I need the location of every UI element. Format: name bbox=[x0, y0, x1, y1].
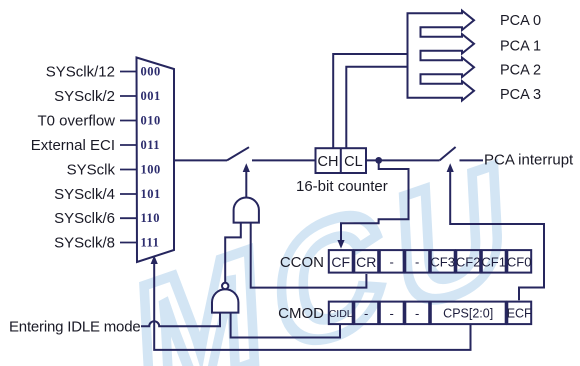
register CH/CL (16-bit counter) bbox=[316, 148, 367, 173]
switch S1 (counter run/stop) bbox=[227, 147, 249, 160]
wire mux output to switch S1 bbox=[174, 159, 227, 161]
svg-text:101: 101 bbox=[141, 187, 161, 201]
wire ECF to interrupt enable switch bbox=[450, 171, 544, 300]
svg-text:CF0: CF0 bbox=[507, 254, 532, 269]
svg-text:CF2: CF2 bbox=[456, 254, 481, 269]
svg-text:PCA 3: PCA 3 bbox=[500, 87, 541, 103]
svg-text:Entering IDLE mode: Entering IDLE mode bbox=[9, 319, 140, 336]
wire switch S2 to PCA interrupt bbox=[460, 159, 484, 161]
svg-text:100: 100 bbox=[141, 163, 161, 177]
svg-text:-: - bbox=[390, 306, 394, 321]
svg-text:PCA 0: PCA 0 bbox=[500, 13, 541, 29]
PCA module output comb arrows (PCA0-PCA3) bbox=[408, 11, 475, 101]
svg-text:16-bit counter: 16-bit counter bbox=[296, 178, 388, 195]
wire input stub SYSclk/8 bbox=[120, 242, 137, 244]
svg-text:011: 011 bbox=[141, 138, 161, 152]
register CMOD cells bbox=[329, 302, 353, 325]
svg-text:ECF: ECF bbox=[507, 307, 532, 321]
arrowhead mux select bbox=[151, 255, 158, 264]
wire CH to PCA module bus (left feed) bbox=[333, 54, 407, 148]
arrowhead into CF bit bbox=[337, 240, 344, 249]
arrowhead to switch S2 bbox=[447, 163, 454, 172]
svg-text:CMOD: CMOD bbox=[278, 305, 324, 322]
switch S2 (interrupt enable) bbox=[440, 147, 456, 160]
mux select codes bbox=[141, 65, 161, 250]
svg-text:CL: CL bbox=[344, 154, 363, 170]
mux (clock source multiplexer) bbox=[137, 58, 175, 263]
wire AND gate output to switch S1 control bbox=[245, 171, 247, 198]
svg-text:CPS[2:0]: CPS[2:0] bbox=[443, 307, 493, 321]
svg-text:External ECI: External ECI bbox=[31, 137, 115, 154]
svg-text:PCA 2: PCA 2 bbox=[500, 63, 541, 79]
svg-text:CIDL: CIDL bbox=[329, 308, 353, 320]
svg-text:T0 overflow: T0 overflow bbox=[37, 113, 115, 130]
wire CR bit to AND gate input bbox=[251, 222, 367, 288]
wire input stub SYSclk/12 bbox=[120, 71, 137, 73]
svg-text:CCON: CCON bbox=[280, 254, 324, 271]
svg-text:SYSclk: SYSclk bbox=[67, 162, 116, 179]
register bit labels bbox=[329, 254, 532, 321]
svg-text:SYSclk/4: SYSclk/4 bbox=[54, 186, 115, 203]
NAND gate U2 bbox=[212, 289, 238, 312]
wire Entering IDLE mode to NAND input (with hop) bbox=[141, 313, 220, 326]
wire NAND output to AND gate input bbox=[225, 223, 241, 282]
svg-text:-: - bbox=[364, 306, 368, 321]
wire input stub SYSclk/2 bbox=[120, 95, 137, 97]
wire CL to switch S2 bbox=[366, 159, 440, 161]
wire switch S1 to CH bbox=[252, 159, 316, 161]
wire counter overflow to CCON CF bit bbox=[341, 160, 409, 241]
svg-text:SYSclk/6: SYSclk/6 bbox=[54, 210, 115, 227]
wire input stub SYSclk bbox=[120, 169, 137, 171]
svg-text:CF: CF bbox=[331, 254, 350, 270]
svg-text:PCA interrupt: PCA interrupt bbox=[484, 152, 574, 169]
wire input stub SYSclk/6 bbox=[120, 217, 137, 219]
svg-text:-: - bbox=[390, 254, 394, 269]
wire input stub External ECI bbox=[120, 144, 137, 146]
svg-text:SYSclk/2: SYSclk/2 bbox=[54, 88, 115, 105]
wire input stub T0 overflow bbox=[120, 120, 137, 122]
wire CL to PCA module bus (right feed) bbox=[346, 67, 407, 149]
svg-text:CF1: CF1 bbox=[481, 254, 506, 269]
svg-text:CR: CR bbox=[356, 254, 376, 270]
svg-text:SYSclk/12: SYSclk/12 bbox=[46, 64, 115, 81]
svg-text:001: 001 bbox=[141, 89, 161, 103]
svg-text:SYSclk/8: SYSclk/8 bbox=[54, 235, 115, 252]
AND gate U1 bbox=[234, 197, 259, 222]
svg-text:-: - bbox=[415, 254, 419, 269]
svg-text:110: 110 bbox=[141, 211, 161, 225]
arrowhead AND to switch S1 bbox=[243, 163, 250, 172]
wire CIDL bit to NAND input bbox=[231, 313, 340, 338]
wire input stub SYSclk/4 bbox=[120, 193, 137, 195]
svg-text:000: 000 bbox=[141, 65, 161, 79]
svg-text:111: 111 bbox=[141, 236, 160, 250]
wire CPS[2:0] to mux select bbox=[154, 261, 470, 350]
svg-text:CF3: CF3 bbox=[430, 254, 455, 269]
watermark bbox=[132, 123, 524, 366]
svg-text:-: - bbox=[415, 306, 419, 321]
svg-text:010: 010 bbox=[141, 114, 161, 128]
register CCON cells bbox=[329, 250, 353, 273]
junction node (counter output) bbox=[375, 157, 382, 164]
svg-text:PCA 1: PCA 1 bbox=[500, 39, 541, 55]
svg-text:CH: CH bbox=[318, 154, 339, 170]
